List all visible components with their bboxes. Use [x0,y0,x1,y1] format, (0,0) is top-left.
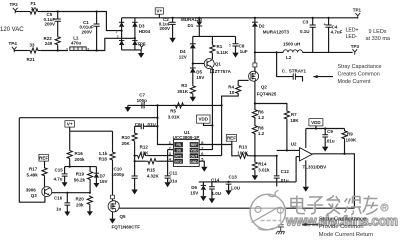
svg-text:1: 1 [66,47,68,51]
ground chassis [276,178,278,186]
svg-text:20k: 20k [76,203,84,208]
svg-text:Creates Common: Creates Common [338,71,380,77]
svg-text:R20: R20 [76,197,85,202]
svg-text:C15: C15 [55,167,64,172]
ground [95,178,97,183]
svg-text:Mode Current Return: Mode Current Return [319,232,373,237]
svg-text:1.0U: 1.0U [212,191,222,196]
wire clamp [193,35,236,37]
wire V+ rail [135,17,358,19]
wire [41,50,68,52]
ground [192,96,194,97]
ground [228,184,230,190]
svg-text:4.7uF: 4.7uF [331,30,343,35]
svg-text:33: 33 [30,42,36,47]
svg-text:Stray Capacitance: Stray Capacitance [319,217,366,223]
svg-text:Q1: Q1 [215,62,222,67]
wire gate Q5 [119,207,354,209]
annotation arrow [314,76,334,78]
svg-text:GND: GND [190,160,198,164]
wire Q3 emitter bus [52,192,90,194]
node VDD [204,123,213,125]
svg-text:10: 10 [229,90,235,95]
ground [201,167,207,172]
svg-text:R6: R6 [258,109,264,114]
svg-text:C8: C8 [239,44,245,49]
svg-text:R5: R5 [170,108,176,113]
label ZT757A [210,69,213,72]
svg-text:4.7u: 4.7u [54,177,63,182]
svg-text:C7: C7 [139,92,145,97]
svg-text:7: 7 [201,146,203,151]
ground [134,178,136,189]
wire IN+ [296,156,299,158]
svg-text:249: 249 [45,41,53,46]
pin label RT2/GND [174,159,183,164]
ground [211,189,213,198]
svg-text:D5: D5 [196,69,202,74]
svg-text:12V: 12V [179,54,187,59]
node VDD right [309,119,323,126]
wire [14,50,27,52]
svg-text:1500 uH: 1500 uH [283,42,300,47]
svg-text:200V: 200V [45,22,56,27]
svg-text:D7: D7 [100,173,106,178]
wire OUT pin6 [199,155,221,157]
svg-text:FQT1N60CTF: FQT1N60CTF [112,225,141,230]
svg-text:C13: C13 [229,175,238,180]
wire feedback long [19,117,157,119]
svg-text:D3: D3 [139,24,145,29]
svg-text:TP3: TP3 [351,44,360,49]
svg-text:15V: 15V [100,179,108,184]
pin label SS/VDD [174,148,183,153]
svg-text:D6: D6 [191,185,197,190]
wire emitter Q1 to VDD [199,68,212,149]
wire feedback loop [19,118,45,203]
svg-text:TP4: TP4 [9,41,18,46]
svg-text:470u: 470u [71,41,82,46]
diode bridge top-left [119,22,124,26]
svg-text:15V: 15V [196,75,204,80]
svg-text:LED-: LED- [346,34,358,40]
svg-text:5.49k: 5.49k [27,173,39,178]
svg-text:R7: R7 [291,112,297,117]
svg-text:9 LEDs: 9 LEDs [369,29,387,35]
ground chassis [276,231,285,234]
svg-text:ZT757A: ZT757A [215,69,232,74]
svg-text:R13: R13 [239,145,248,150]
svg-text:L1: L1 [73,35,79,40]
svg-text:D1: D1 [188,23,194,28]
svg-text:3906: 3906 [26,188,37,193]
svg-text:VDD: VDD [311,120,321,125]
svg-text:R4: R4 [228,84,234,89]
svg-text:301K: 301K [177,89,189,94]
svg-text:1.2: 1.2 [258,131,265,136]
pin label RT1/OUT [174,153,183,158]
watermark reel left [255,206,261,212]
svg-text:VDD: VDD [190,149,198,153]
svg-text:R18: R18 [99,157,108,162]
svg-text:3.01k: 3.01k [258,168,270,173]
svg-text:R10: R10 [122,135,131,140]
wire R5/C7 [128,104,222,106]
svg-text:VDD: VDD [198,117,208,122]
wire FB column [158,105,174,144]
svg-text:C16: C16 [54,196,63,201]
svg-text:FB: FB [176,143,181,147]
svg-text:100K: 100K [346,138,358,143]
svg-text:HD04: HD04 [139,29,151,34]
svg-text:C10: C10 [114,166,123,171]
diode bridge bottom-left [119,41,124,45]
wire REF pin8 [199,144,232,146]
ground U2 [305,160,307,187]
wire to R7 [255,104,287,111]
ground [324,137,326,147]
watermark char 1 [291,196,305,214]
ground [235,46,237,53]
svg-text:R8: R8 [258,125,264,130]
wire [41,12,122,31]
svg-text:D2: D2 [259,24,265,29]
svg-text:REF: REF [191,143,198,147]
ground [64,176,66,182]
ground [112,212,114,219]
svg-text:R1: R1 [217,44,223,49]
diode bridge top-right [132,22,137,26]
wire VDD bus [306,128,345,130]
svg-text:Q2: Q2 [261,84,268,89]
svg-text:R12: R12 [140,145,149,150]
wire RT2 [159,160,174,162]
svg-text:Q3: Q3 [31,193,38,198]
svg-text:18K: 18K [290,118,299,123]
watermark char 5 [363,196,378,215]
svg-text:1.2: 1.2 [258,115,265,120]
svg-text:1.1k: 1.1k [99,151,108,156]
svg-text:1uF: 1uF [240,49,248,54]
svg-text:REF: REF [39,155,48,160]
svg-text:SS: SS [176,149,181,153]
ground [167,178,169,182]
svg-text:L2: L2 [286,55,292,60]
svg-text:RT1: RT1 [175,154,182,158]
svg-text:2: 2 [116,30,118,34]
svg-text:C9: C9 [327,129,333,134]
wire [70,130,113,132]
svg-text:FQT4N25: FQT4N25 [257,92,277,97]
svg-text:UCC3809-1P: UCC3809-1P [173,135,200,140]
svg-text:D4: D4 [180,49,186,54]
wire [86,38,135,50]
svg-text:200V: 200V [159,26,170,31]
svg-text:5.11K: 5.11K [217,50,230,55]
watermark char 4 [345,197,362,215]
wire [15,11,27,13]
svg-text:Mode Current: Mode Current [338,79,371,85]
wire LED return [302,51,352,53]
svg-text:3.01K: 3.01K [168,115,181,120]
svg-text:1000p: 1000p [112,172,125,177]
svg-text:C3: C3 [303,19,309,24]
wire IN- [277,149,300,151]
svg-text:.01u: .01u [326,139,335,144]
svg-text:120 VAC: 120 VAC [0,27,24,33]
wire base Q1 [193,63,204,65]
watermark registered mark [381,204,388,211]
pin label FB/REF [174,142,183,147]
watermark char 2 [307,197,323,214]
svg-text:R22: R22 [44,36,53,41]
watermark reel right [277,207,283,213]
svg-text:R16: R16 [75,151,84,156]
watermark tape line [252,208,278,223]
node V+ left [65,121,75,127]
ground chassis [0,0,1,1]
svg-text:0.1U: 0.1U [300,29,310,34]
wire RT1 [149,155,174,157]
wire source Q2 [254,81,256,110]
svg-text:Q5: Q5 [120,214,127,219]
wire bus [199,181,296,183]
svg-text:1u: 1u [56,206,62,211]
ground [66,205,68,211]
svg-text:V+: V+ [156,9,162,14]
svg-text:3: 3 [117,35,119,39]
ground [140,50,142,53]
svg-text:R21: R21 [27,57,36,62]
svg-text:TP2: TP2 [10,2,19,7]
ground [254,171,256,176]
watermark char 3 [327,195,341,215]
node REF [226,135,236,142]
svg-text:C_ STRAY1: C_ STRAY1 [282,68,307,73]
svg-text:RT2: RT2 [175,160,182,164]
svg-text:OUT: OUT [190,154,198,158]
svg-text:TP5: TP5 [137,41,146,46]
svg-text:TP1: TP1 [353,8,362,13]
watermark logo circle [250,194,285,229]
ground [202,190,204,196]
ground [89,205,91,211]
wire GND pin5 [199,161,204,167]
wire U2 output [312,154,354,208]
svg-text:at 330 ma: at 330 ma [366,36,391,42]
svg-text:4.32K: 4.32K [147,174,160,179]
svg-text:5: 5 [229,44,231,48]
svg-text:Provide Common: Provide Common [319,224,364,230]
svg-text:R19: R19 [76,171,85,176]
svg-text:200V: 200V [82,29,93,34]
svg-text:U2: U2 [291,142,297,147]
svg-text:Stray Capacitance: Stray Capacitance [338,64,382,70]
svg-text:C12: C12 [281,169,290,174]
annotation arrow return [304,224,319,226]
svg-text:1.0U: 1.0U [231,185,241,190]
svg-text:MURA120T3: MURA120T3 [263,29,290,34]
ground [127,105,129,107]
svg-text:V+: V+ [67,122,73,127]
svg-text:100p: 100p [137,98,148,103]
diode bridge bottom-right [132,41,137,45]
svg-text:C11: C11 [169,170,178,175]
svg-text:R17: R17 [29,167,38,172]
svg-text:200k: 200k [75,157,86,162]
svg-text:56.2k: 56.2k [74,177,86,182]
capacitor C_STRAY2 [278,208,284,231]
wire [254,117,256,126]
node REF left [39,154,49,161]
svg-text:15V: 15V [190,191,198,196]
svg-text:LED+: LED+ [346,28,359,34]
svg-text:R15: R15 [147,168,156,173]
wire [65,166,97,168]
node V+ [155,8,163,14]
svg-text:20K: 20K [122,141,131,146]
svg-text:REF: REF [227,136,236,141]
svg-text:C14: C14 [211,178,220,183]
svg-text:R14: R14 [258,162,267,167]
svg-text:R3: R3 [181,83,187,88]
ground [172,24,174,37]
